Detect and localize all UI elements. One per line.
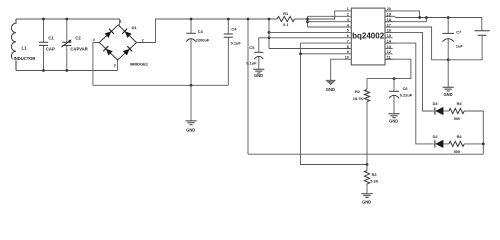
wire pin7 row [301,42,352,44]
svg-text:C4: C4 [231,27,237,32]
wire pin6 row [269,37,351,39]
battery BT1 [474,31,489,36]
svg-text:BRIDGE1: BRIDGE1 [130,62,149,67]
ground pin10 [326,80,335,85]
svg-text:12: 12 [387,50,391,54]
junction A rail [268,18,271,21]
wire pin19 rail [385,16,482,30]
svg-text:2: 2 [347,13,349,17]
svg-text:D2: D2 [433,134,439,139]
junction pin18 rail [425,16,428,19]
svg-text:10: 10 [345,56,349,60]
svg-text:C3: C3 [198,29,204,34]
svg-text:GND: GND [443,92,452,97]
resistor R5 [366,165,368,171]
svg-text:CAP: CAP [46,46,55,51]
svg-text:R3: R3 [457,101,463,106]
svg-text:C6: C6 [403,86,409,91]
wire pin8 row [269,48,351,50]
junction C1 bottom [42,69,45,72]
junction B rail [306,18,309,21]
resistor R4 [449,141,464,146]
wire bridge pin 4 down [93,43,99,86]
svg-text:5.3K: 5.3K [370,179,378,184]
svg-text:500: 500 [454,116,461,121]
junction C6 top [393,77,396,80]
junction C2 top [65,18,68,21]
svg-text:500: 500 [454,149,461,154]
wire pin5 row [269,31,351,33]
svg-text:GND: GND [389,118,398,123]
junction C3 bottom [190,84,193,87]
junction pin9 net [299,52,302,55]
diode D3 [434,107,436,114]
svg-text:3: 3 [114,63,116,67]
junction B row3 [306,20,309,23]
capacitor C2 [66,19,68,71]
svg-text:bq24002: bq24002 [352,32,385,41]
wire pin10 to ground [331,59,352,80]
svg-text:GND: GND [362,200,371,205]
svg-text:2: 2 [142,38,144,42]
svg-text:C2: C2 [75,35,81,40]
junction A row5 [268,31,271,34]
svg-text:CAPVAR: CAPVAR [70,46,87,51]
svg-text:0.22uF: 0.22uF [400,92,413,97]
junction VCC drop [247,18,250,21]
svg-text:GND: GND [186,128,195,133]
resistor R3 [449,108,464,113]
wire pin2 row [308,15,352,17]
junction pin20 rail [418,16,421,19]
svg-text:R3: R3 [372,172,378,177]
svg-text:R2: R2 [355,89,361,94]
wire pin16 to D3 [385,32,434,111]
wire pin17 to C7 bottom [385,27,448,60]
svg-text:R4: R4 [457,134,463,139]
svg-text:6: 6 [347,34,349,38]
capacitor C1 [43,19,45,71]
inductor L1 [11,19,16,71]
wire bridge pin 3 stub [117,60,119,71]
ground below C6 [388,114,399,118]
svg-text:C1: C1 [48,35,54,40]
capacitor C6 [393,79,395,114]
wire pin20 drop [385,11,420,18]
svg-text:8: 8 [347,45,349,49]
wire LED return vertical [482,111,484,154]
wire net A vertical [268,19,270,49]
wire VCC drop to bottom net [247,19,249,154]
svg-text:2200uF: 2200uF [196,38,210,43]
junction C7 bottom [447,58,450,61]
wire bottom long net [248,153,483,155]
svg-text:C7: C7 [456,29,461,34]
wire pin9 row [301,53,352,55]
junction C1 top [42,18,45,21]
junction A row6 [268,36,271,39]
svg-text:18.7K: 18.7K [353,96,364,101]
wire bridge pin 2 to rail [137,19,278,43]
wire R1 to pin1 [295,11,352,19]
svg-text:GND: GND [254,73,263,78]
capacitor C4 [227,19,229,85]
svg-text:L1: L1 [22,45,28,50]
svg-text:INDUCTOR: INDUCTOR [14,56,36,61]
ground below R5 [361,194,372,198]
resistor R1 [277,16,295,21]
svg-text:0.1uF: 0.1uF [231,41,242,46]
svg-text:1: 1 [120,20,122,24]
resistor R2 [366,79,368,90]
svg-text:3: 3 [347,18,349,22]
svg-text:4: 4 [93,38,96,42]
ground below C3 [190,85,192,120]
wire bottom net to C4 [93,84,228,86]
svg-text:1uF: 1uF [456,44,464,49]
ground below C7 [447,60,449,87]
wire net B vertical [307,16,309,27]
svg-text:D1: D1 [132,25,138,30]
svg-text:R1: R1 [283,11,289,16]
capacitor C7 [447,18,449,60]
capacitor C5 [259,38,269,69]
wire pin18 up [385,18,426,22]
wire pin11 to R2 C6 [367,59,411,78]
svg-text:7: 7 [347,39,349,43]
ground below C5 [253,69,264,73]
svg-text:0.1: 0.1 [283,22,289,27]
svg-text:D3: D3 [433,101,439,106]
wire pin3 row [308,21,352,23]
junction D2 return [482,143,485,146]
junction C3 top [190,18,193,21]
svg-text:GND: GND [326,87,335,92]
junction R2 bottom [366,163,369,166]
svg-text:0.1uF: 0.1uF [246,60,257,65]
junction C2 bottom [65,69,68,72]
wire pin4 row [308,26,352,28]
junction C4 top [227,18,230,21]
bridge rectifier D1 [99,25,136,60]
op-amp U1 bq24002 [351,8,385,65]
svg-text:5: 5 [347,29,349,33]
capacitor C3 [190,19,192,85]
wire bottom-left rail [16,70,118,72]
diode D2 [434,140,436,147]
wire pin7 net vertical [301,43,368,164]
wire top-left rail to bridge pin 1 [16,19,119,25]
svg-text:13: 13 [387,45,391,49]
junction C7 top [447,16,450,19]
svg-text:15: 15 [387,34,391,38]
svg-text:9: 9 [347,50,349,54]
svg-text:C5: C5 [249,45,255,50]
wire pin14 to D2 [385,43,434,144]
svg-text:1: 1 [347,7,349,11]
